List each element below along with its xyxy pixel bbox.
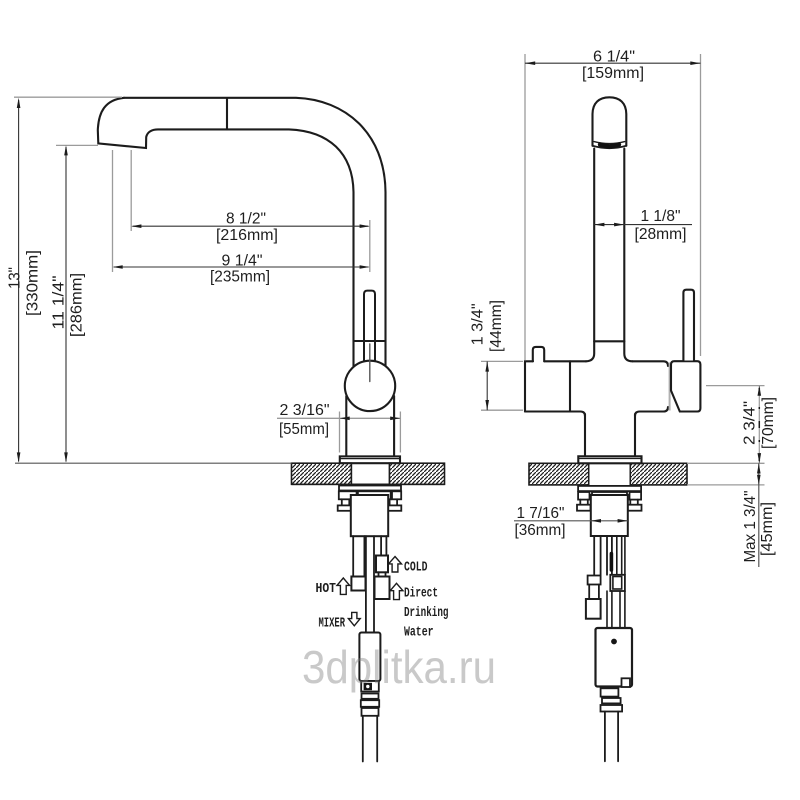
ext line 9 1/4 vertical: [112, 150, 114, 272]
svg-text:1 3/4": 1 3/4": [470, 303, 487, 345]
lower shank sides: [585, 414, 635, 456]
riser tube left edge: [586, 149, 594, 362]
filter valve separation line: [569, 361, 571, 411]
filter supply hose: [605, 712, 618, 762]
spray head separation line: [226, 99, 228, 129]
svg-text:[330mm]: [330mm]: [25, 250, 42, 316]
countertop hatched right block: [389, 463, 444, 484]
mixer fitting lower band: [361, 681, 379, 692]
tubes from fitting to filter block: [607, 591, 612, 628]
svg-text:[216mm]: [216mm]: [216, 227, 278, 244]
right bolt nut: [386, 505, 401, 510]
svg-text:[286mm]: [286mm]: [69, 273, 86, 337]
spout cap dome: [593, 97, 627, 146]
hot hose: [353, 536, 364, 576]
riser tube right edge: [624, 149, 632, 362]
text 2 3/4: [742, 401, 759, 445]
left bolt right view: [580, 500, 588, 505]
dim line 6 1/4: [525, 62, 701, 64]
right nut right view: [628, 505, 642, 511]
text 13in: [7, 267, 24, 289]
left hose connector: [586, 599, 601, 619]
left nut right view: [577, 505, 591, 511]
left hose elbow: [588, 576, 601, 585]
handle lever rod: [683, 290, 694, 361]
washer second row left: [339, 491, 357, 499]
aerator dark band: [600, 145, 619, 147]
svg-text:Drinking: Drinking: [404, 606, 449, 621]
left mounting bolt: [342, 499, 350, 505]
tube-body joint line: [594, 340, 624, 342]
dim line 2 3/16: [277, 417, 400, 419]
svg-text:[45mm]: [45mm]: [759, 502, 776, 556]
dim line 1 3/4: [486, 361, 488, 410]
cold hose: [381, 536, 386, 555]
ext line bottom counter: [15, 462, 292, 464]
dim line 1 1/8: [594, 224, 692, 226]
svg-text:1 7/16": 1 7/16": [517, 505, 565, 522]
body top edge right of tube: [633, 361, 669, 366]
ext line center axis: [369, 220, 371, 272]
dim line 8 1/2: [133, 225, 369, 227]
link between cold and drinking connectors: [379, 572, 386, 576]
dim line 11 1/4: [65, 147, 67, 462]
svg-text:6 1/4": 6 1/4": [593, 48, 635, 65]
washer row2 middle: [592, 492, 627, 500]
countertop ext lines right: [687, 462, 765, 464]
filter rib 2: [601, 705, 623, 712]
svg-text:[36mm]: [36mm]: [515, 522, 566, 539]
Direct up arrow: [390, 583, 403, 599]
text 1 3/4: [470, 303, 487, 345]
dim line 1 7/16: [514, 520, 628, 522]
left bolt nut: [338, 505, 354, 510]
filter block: [596, 628, 633, 687]
ext line 8 1/2 vertical: [130, 150, 132, 231]
dim line max 1 3/4: [758, 463, 760, 567]
aerator rings: [593, 146, 627, 148]
svg-text:2 3/16": 2 3/16": [280, 402, 330, 419]
right bolt right view: [630, 500, 638, 505]
countertop hatched right block right view: [630, 463, 687, 485]
svg-text:[70mm]: [70mm]: [760, 397, 777, 449]
dim line 13in: [18, 100, 20, 462]
ext line 11 1/4: [56, 144, 98, 146]
washer row2 left: [578, 492, 589, 500]
ext line 6 1/4 right: [700, 54, 702, 356]
handle gray gap: [669, 363, 671, 411]
svg-text:1 1/8": 1 1/8": [641, 208, 681, 225]
svg-text:[55mm]: [55mm]: [279, 421, 329, 438]
filter block dot: [611, 639, 617, 645]
right mounting bolt: [390, 499, 398, 505]
handle lever body: [671, 361, 700, 411]
svg-text:Direct: Direct: [404, 586, 438, 601]
svg-text:MIXER: MIXER: [319, 616, 346, 631]
rod centerline into ball: [369, 344, 371, 382]
svg-text:2 3/4": 2 3/4": [742, 401, 759, 445]
handle rod (side view): [364, 291, 375, 362]
washer plate under counter: [339, 486, 401, 491]
filter valve left edge: [525, 361, 533, 411]
svg-text:3dplitka.ru: 3dplitka.ru: [302, 641, 496, 693]
svg-text:Water: Water: [404, 625, 434, 640]
tube-ball joint line: [354, 340, 386, 342]
svg-text:Max 1 3/4": Max 1 3/4": [742, 491, 759, 563]
washer second row middle: [358, 491, 391, 499]
spout head left edge, bottom lip, and inner tube edge with inner curve: [98, 98, 354, 366]
ext line top 13in: [14, 96, 122, 98]
HOT up arrow: [337, 578, 350, 594]
faucet body below ball: [345, 396, 347, 456]
filter valve knob: [533, 347, 544, 361]
text 11 1/4: [51, 276, 68, 330]
filter block cap: [601, 688, 619, 696]
mixer rib 2: [361, 700, 379, 707]
svg-text:[44mm]: [44mm]: [488, 300, 505, 352]
body bottom edge right: [635, 407, 668, 416]
hot check valve connector: [351, 577, 365, 591]
MIXER down arrow: [348, 612, 360, 625]
filter block notch: [622, 678, 631, 687]
svg-text:8 1/2": 8 1/2": [226, 211, 266, 228]
mixer outlet fitting body: [359, 633, 380, 682]
filter rib 1: [602, 698, 621, 703]
svg-text:9 1/4": 9 1/4": [222, 253, 263, 270]
dark hose segment: [610, 554, 614, 571]
mixer rib 3: [362, 708, 379, 716]
svg-text:11 1/4": 11 1/4": [51, 276, 68, 330]
body bottom edge left: [525, 412, 585, 417]
body top edge left of tube: [544, 360, 586, 362]
dim line 9 1/4: [114, 266, 369, 268]
cold check valve connector: [376, 556, 388, 573]
shank block: [351, 495, 388, 536]
middle fitting: [610, 575, 625, 591]
mixer hose: [366, 536, 374, 632]
washer row2 right: [630, 492, 642, 500]
spout outer top edge and outer curve of L-tube: [124, 98, 386, 366]
text max 1 3/4: [742, 491, 759, 563]
svg-text:13": 13": [7, 267, 24, 289]
svg-text:[28mm]: [28mm]: [635, 226, 687, 243]
base flange: [340, 456, 400, 463]
base flange right view: [578, 456, 641, 463]
svg-text:[159mm]: [159mm]: [582, 65, 644, 82]
svg-text:[235mm]: [235mm]: [210, 269, 270, 286]
svg-text:COLD: COLD: [404, 560, 428, 575]
countertop hatched left block: [292, 463, 352, 484]
washer plate right view: [578, 486, 641, 491]
shank block right view: [591, 495, 628, 536]
mixer valve black detail: [364, 683, 372, 690]
countertop hatched left block right view: [529, 463, 589, 485]
hose group below shank: [594, 536, 600, 576]
ext line 6 1/4 left: [524, 54, 526, 360]
ball joint: [345, 361, 395, 411]
direct drinking water connector: [375, 577, 390, 600]
countertop bottom edge: [292, 483, 445, 485]
COLD up arrow: [389, 557, 402, 573]
washer second row right: [392, 491, 401, 499]
dim line 2 3/4 dash-dot: [758, 386, 760, 464]
svg-text:HOT: HOT: [316, 582, 337, 597]
ext lines 2 3/16: [340, 412, 401, 453]
mixer rib 1: [362, 694, 379, 699]
ext line 2 3/4 top: [706, 385, 765, 387]
mixer supply hose: [363, 716, 377, 762]
ext lines 1 3/4: [481, 361, 523, 410]
